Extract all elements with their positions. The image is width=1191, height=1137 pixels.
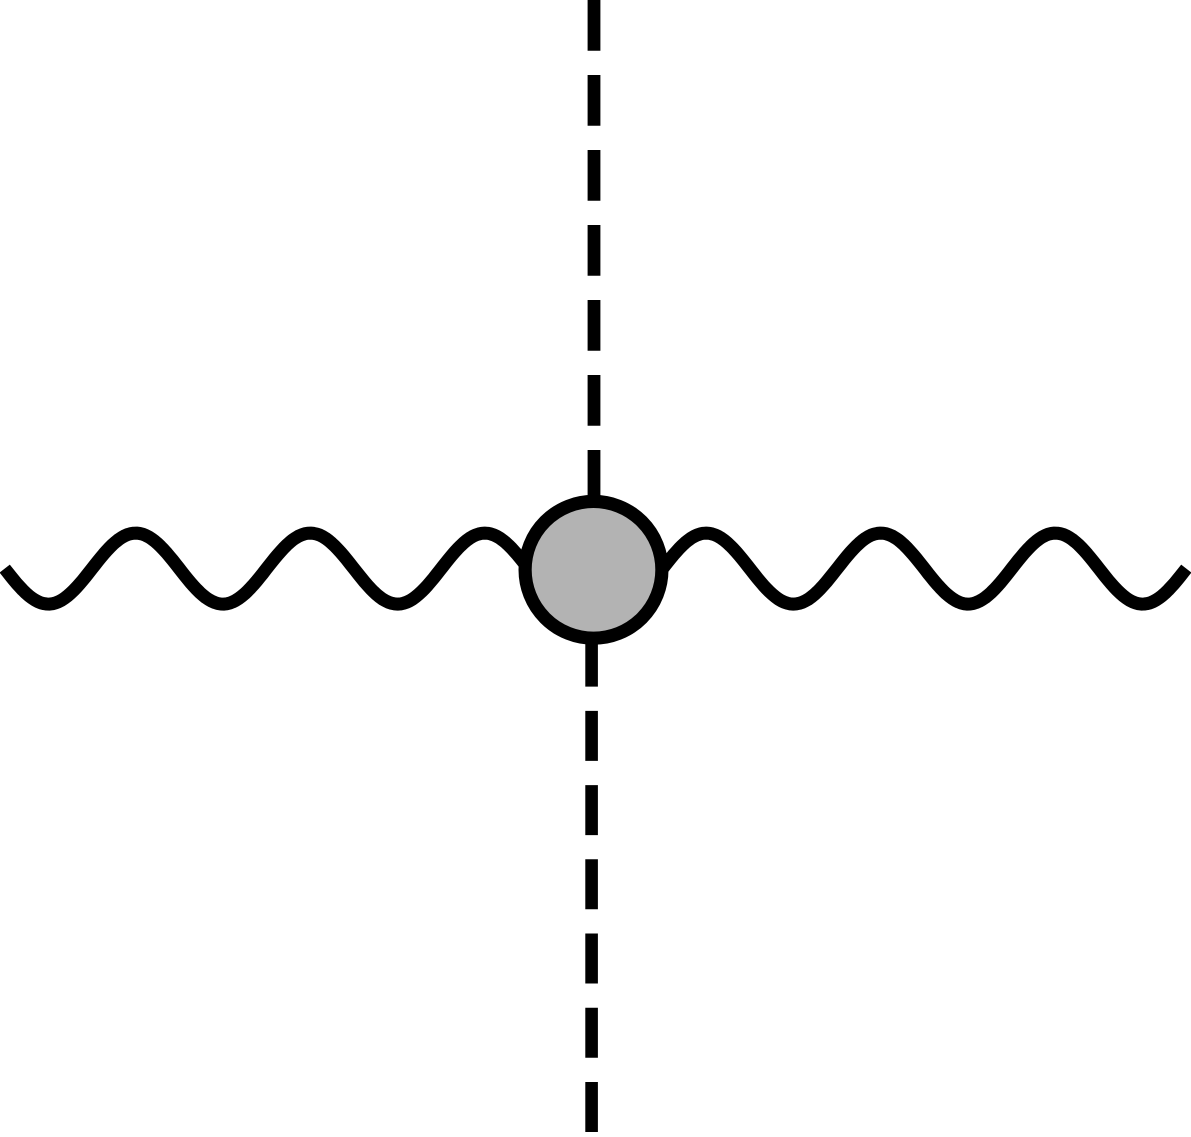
photon (wavy) propagator, left segment: [5, 533, 596, 604]
scalar (dashed) propagator, bottom segment: [585, 633, 598, 1132]
vertex blob (shaded circle): [525, 501, 662, 638]
photon (wavy) propagator, right segment: [592, 533, 1186, 604]
scalar (dashed) propagator, top segment: [588, 0, 601, 502]
